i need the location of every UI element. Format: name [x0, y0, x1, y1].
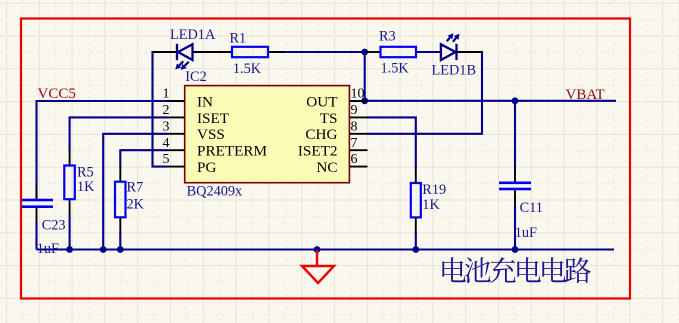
LED LED1A	[177, 44, 193, 60]
resistor R1	[232, 47, 268, 57]
pin 6 NC	[349, 166, 367, 168]
svg-text:R7: R7	[127, 180, 144, 196]
node C11-VBAT junction	[512, 97, 519, 104]
svg-text:4: 4	[163, 136, 170, 151]
svg-text:8: 8	[351, 119, 358, 134]
svg-text:PG: PG	[197, 159, 216, 176]
resistor R5 pins	[69, 150, 71, 166]
pin 2 ISET	[167, 116, 185, 118]
svg-text:NC: NC	[316, 159, 337, 176]
wire R19 bottom to rail	[415, 233, 417, 250]
wire C11 bottom to rail	[514, 206, 516, 250]
svg-text:TS: TS	[320, 110, 338, 127]
title text 电池充电电路	[442, 257, 591, 283]
svg-text:7: 7	[351, 136, 358, 151]
svg-text:1uF: 1uF	[515, 225, 537, 241]
wire R7 bottom to rail	[119, 233, 121, 250]
svg-text:VSS: VSS	[197, 126, 225, 143]
pin 4 PRETERM	[167, 149, 185, 151]
wire LED1B cathode down to pin 8	[367, 51, 482, 134]
resistor R19 pins	[415, 167, 417, 184]
svg-text:VCC5: VCC5	[38, 86, 76, 102]
wire R3 to LED1B	[416, 51, 442, 53]
svg-text:1.5K: 1.5K	[233, 61, 262, 77]
svg-text:R19: R19	[422, 182, 446, 198]
pin 9 TS	[349, 116, 367, 118]
node VSS-rail	[100, 246, 107, 253]
wire R7 top to pin 4	[120, 150, 167, 166]
svg-text:IN: IN	[197, 93, 213, 110]
svg-text:BQ2409x: BQ2409x	[187, 184, 243, 200]
svg-text:C11: C11	[520, 200, 543, 216]
node R5-rail	[66, 246, 73, 253]
svg-text:5: 5	[163, 152, 170, 167]
wire R5 top to pin 2	[70, 117, 167, 150]
wire C11 top to VBAT	[514, 101, 516, 167]
pin 1 IN	[167, 100, 185, 102]
pin 7 ISET2	[349, 149, 367, 151]
op-amp U1: IC BQ2409x body	[185, 86, 350, 183]
capacitor C11	[499, 182, 531, 185]
svg-text:1K: 1K	[77, 179, 95, 195]
resistor R3	[381, 47, 417, 57]
svg-text:1K: 1K	[422, 197, 440, 213]
svg-text:1: 1	[163, 87, 170, 102]
wire pin 3 to rail	[103, 134, 167, 250]
sheet border frame	[21, 19, 630, 299]
svg-text:C23: C23	[42, 218, 66, 234]
wire VCC5 to pin 1	[37, 101, 168, 199]
wire pin 9 to R19	[367, 117, 416, 167]
wire R1 to OUT junction	[284, 51, 366, 53]
resistor R7	[115, 182, 126, 218]
svg-text:1.5K: 1.5K	[381, 61, 410, 77]
resistor R19	[411, 183, 421, 217]
wire C23 bottom to ground rail	[35, 222, 37, 250]
svg-text:IC2: IC2	[185, 69, 206, 85]
svg-text:R3: R3	[379, 28, 396, 44]
node junction R1-R3	[361, 49, 368, 56]
resistor R3 pins	[365, 51, 381, 53]
resistor R1 pins	[268, 51, 285, 53]
wire ground rail	[37, 248, 615, 250]
capacitor C11 pins	[514, 166, 516, 182]
svg-text:R5: R5	[77, 165, 94, 181]
svg-text:ISET2: ISET2	[298, 143, 338, 160]
wire junction down to pin 10	[364, 52, 366, 101]
capacitor C23	[22, 199, 54, 202]
svg-text:VBAT: VBAT	[566, 87, 605, 103]
svg-text:CHG: CHG	[305, 126, 337, 143]
pin 8 CHG	[349, 133, 367, 135]
resistor R5	[64, 166, 75, 200]
pin 3 VSS	[167, 133, 185, 135]
svg-text:9: 9	[351, 103, 358, 118]
svg-text:R1: R1	[230, 30, 247, 46]
capacitor C23 pins	[36, 185, 38, 199]
wire pin 5 up to LED1A anode	[153, 52, 168, 167]
pin 10 OUT	[349, 100, 367, 102]
pin 5 PG	[167, 166, 185, 168]
node pin10 junction	[361, 97, 368, 104]
node C11-rail	[512, 246, 519, 253]
svg-text:2: 2	[163, 103, 170, 118]
svg-text:ISET: ISET	[197, 110, 230, 127]
svg-text:10: 10	[351, 87, 365, 102]
svg-text:2K: 2K	[127, 197, 145, 213]
wire R5 bottom to rail	[69, 215, 71, 250]
svg-text:LED1B: LED1B	[432, 63, 476, 79]
resistor R7 pins	[119, 166, 121, 182]
node ground-rail	[314, 246, 321, 253]
ground	[302, 250, 334, 283]
svg-text:OUT: OUT	[306, 93, 338, 110]
svg-text:6: 6	[351, 152, 358, 167]
wire VBAT from pin 10	[366, 100, 616, 102]
svg-text:PRETERM: PRETERM	[197, 143, 268, 160]
svg-text:3: 3	[163, 119, 170, 134]
LED LED1A pins	[152, 51, 178, 53]
svg-text:LED1A: LED1A	[170, 27, 216, 43]
node R7-rail	[117, 246, 124, 253]
svg-text:1uF: 1uF	[37, 241, 59, 257]
LED LED1B pins	[458, 51, 484, 53]
LED LED1B	[441, 44, 457, 60]
node R19-rail	[412, 246, 419, 253]
